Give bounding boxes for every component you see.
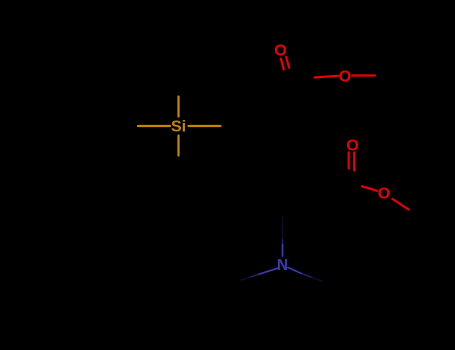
bond N up	[282, 245, 284, 257]
ester 1 C-O single bond	[315, 76, 339, 78]
ester 1 O-CH3 bond	[353, 74, 376, 76]
bond N-CH3 right	[288, 268, 301, 274]
bond N-CH3 left	[260, 268, 278, 274]
svg-text:Si: Si	[171, 119, 186, 136]
svg-text:O: O	[274, 43, 286, 60]
ester 1 C=O double bond	[281, 57, 375, 78]
fade wire C to N up	[282, 240, 284, 245]
ester 2 C-O single bond	[362, 186, 377, 191]
svg-text:N: N	[277, 257, 288, 274]
fade wire N-CH3 right	[301, 273, 311, 277]
bond Si-C right	[189, 125, 221, 127]
fade wire N-CH3 left	[251, 274, 260, 277]
bond Si-CH3 down	[177, 136, 179, 156]
ester 2 C=O double bond	[349, 153, 409, 210]
trimethylsilyl group Si	[138, 97, 221, 156]
svg-text:O: O	[339, 69, 351, 86]
amine N mid-fade bond segments	[251, 240, 311, 277]
faint wire C to N up	[282, 217, 284, 240]
bond Si-CH3 left	[138, 125, 170, 127]
ester 2 O-CH3 bond	[393, 199, 409, 210]
faint wire N-CH3 right	[311, 277, 322, 281]
amine N faint bond continuations	[241, 217, 322, 281]
svg-text:O: O	[378, 186, 390, 203]
bond Si-CH3 up	[177, 97, 179, 117]
faint wire N-CH3 left	[241, 277, 251, 280]
